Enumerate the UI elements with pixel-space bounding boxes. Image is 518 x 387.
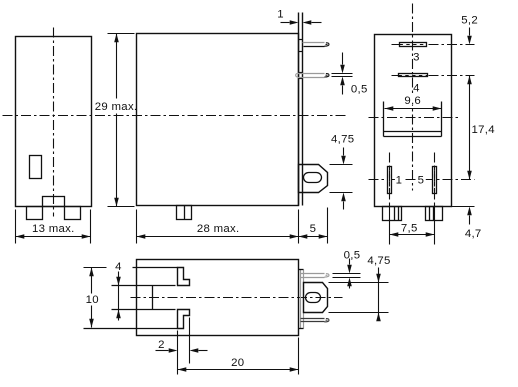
svg-text:1: 1 <box>396 175 403 187</box>
dim 0,5 v2 label <box>351 84 368 96</box>
svg-text:28 max.: 28 max. <box>197 223 240 235</box>
svg-text:17,4: 17,4 <box>472 124 495 136</box>
svg-text:5: 5 <box>418 175 425 187</box>
dim 29max extension lines <box>108 34 135 207</box>
terminal5 slot <box>433 167 437 194</box>
dim 17,4 label <box>472 124 495 136</box>
dim 20 extension line right <box>298 338 300 375</box>
svg-text:4,75: 4,75 <box>367 255 390 267</box>
dim 0,5 v2 line+arrows <box>340 53 345 95</box>
dim 20 line+arrows <box>178 367 299 372</box>
dim 13max extension lines <box>16 210 91 244</box>
dim 5 label <box>310 223 317 235</box>
view2 pin2 <box>296 74 329 78</box>
terminal3 label <box>413 51 420 63</box>
horizontal centerline views 1-2 <box>3 115 348 117</box>
view3 horizontal centerline <box>369 117 460 119</box>
view3 center slot bottom <box>384 132 442 137</box>
terminal1 label <box>395 174 404 187</box>
dim 10 line+arrows <box>89 268 94 328</box>
dim 28max extension lines <box>137 210 299 244</box>
dim 28max label <box>197 223 240 235</box>
view1 vertical centerline <box>53 28 55 217</box>
view1 window cutout <box>30 156 42 179</box>
dim 4,75 v2 label <box>331 133 354 145</box>
view3 right foot <box>426 207 443 221</box>
terminal5 centerline <box>434 153 436 205</box>
lower hook <box>178 310 190 329</box>
dim 13max label <box>32 223 75 235</box>
svg-text:1: 1 <box>277 8 284 20</box>
view2 latch hole <box>304 173 322 183</box>
dim 13max line+arrows <box>16 234 91 239</box>
slot lower edge line <box>112 309 176 311</box>
svg-text:5: 5 <box>310 223 317 235</box>
terminals row centerline <box>369 179 475 181</box>
dim 4 line+arrows <box>116 272 121 321</box>
view2 pin1 root block <box>299 40 303 52</box>
view1 left mounting leg <box>27 207 43 220</box>
view3 center slot sides <box>384 102 442 137</box>
dim 7,5 label <box>401 223 418 235</box>
dim 5 line+arrows <box>299 234 328 239</box>
view3 left foot <box>383 207 402 221</box>
slot end vertical <box>152 286 154 310</box>
dim 10 label <box>86 294 99 306</box>
terminal3 slot <box>400 43 427 47</box>
dim 5,2 label <box>461 14 478 26</box>
terminal5 label <box>416 174 425 187</box>
hook bottom reference line <box>84 328 178 330</box>
dim 0,5 btm label <box>344 250 361 262</box>
bottomview centerline <box>131 297 343 299</box>
svg-text:4: 4 <box>413 83 420 95</box>
dim 1 line+arrows <box>281 20 322 25</box>
view3 relay body outline <box>375 35 452 207</box>
svg-text:4,7: 4,7 <box>465 228 482 240</box>
bottomview top pin <box>301 274 330 278</box>
dim 4,7 line+arrow <box>467 207 472 225</box>
terminal1 centerline <box>389 153 391 205</box>
svg-text:10: 10 <box>86 294 99 306</box>
dim 5 extension line <box>327 208 329 244</box>
svg-text:0,5: 0,5 <box>344 250 361 262</box>
view3 bottom edge extension <box>452 206 475 208</box>
dim 28max line+arrows <box>137 234 299 239</box>
view3 vertical centerline <box>412 4 414 191</box>
dim 29max label <box>95 101 138 113</box>
view2 pin2 root block <box>299 73 303 79</box>
svg-text:20: 20 <box>231 357 244 369</box>
dim 2 label <box>158 339 165 351</box>
dim 0,5 btm extension lines <box>333 274 361 278</box>
dim 0,5 btm line+arrows <box>347 259 352 289</box>
dim 4,75 v2 extension lines <box>330 165 353 193</box>
terminal3 row centerline <box>392 44 475 46</box>
dim 9,6 line+arrows <box>385 106 442 111</box>
svg-text:4,75: 4,75 <box>331 133 354 145</box>
bottomview bottom pin <box>301 319 330 322</box>
svg-text:4: 4 <box>115 261 122 273</box>
view1 relay body outline <box>16 37 92 207</box>
dim 2 line+arrows <box>156 348 208 353</box>
upper hook <box>178 268 190 286</box>
view2 relay body outline <box>137 34 299 206</box>
view1 right mounting leg <box>65 207 81 220</box>
dim 29max line+arrows <box>114 34 119 207</box>
dim 7,5 line+arrows <box>390 232 435 237</box>
view1 bottom center tab <box>43 197 65 207</box>
view2 latch outline <box>299 165 328 193</box>
svg-text:5,2: 5,2 <box>461 14 478 26</box>
view2 pin1 <box>303 43 330 47</box>
dim 20 label <box>231 357 244 369</box>
view2 flange right line <box>302 13 304 206</box>
svg-text:29 max.: 29 max. <box>95 101 138 113</box>
svg-text:2: 2 <box>158 339 165 351</box>
dim 9,6 label <box>404 95 423 108</box>
dim 0,5 v2 extension lines <box>332 74 353 77</box>
terminal4 label <box>413 83 420 95</box>
dim 4,7 label <box>465 228 482 240</box>
dim 4,75 btm extension lines <box>329 283 389 313</box>
slot upper edge line <box>112 285 176 287</box>
dim 5,2 line+arrow <box>467 28 472 45</box>
dim 4,75 btm label <box>367 255 390 267</box>
svg-text:13 max.: 13 max. <box>32 223 75 235</box>
bottomview flange <box>299 270 304 329</box>
bottomview latch outline <box>304 283 328 313</box>
view2 bottom tab <box>177 206 192 220</box>
svg-text:3: 3 <box>413 51 420 63</box>
hook top reference line <box>84 267 178 269</box>
terminal4 slot <box>399 74 428 77</box>
terminal4 row centerline <box>392 75 475 77</box>
svg-text:9,6: 9,6 <box>404 95 421 107</box>
dim 1 label <box>277 8 284 20</box>
dim 4,75 v2 line+arrows <box>341 148 346 210</box>
svg-text:0,5: 0,5 <box>351 84 368 96</box>
bottomview latch hole <box>306 293 321 303</box>
terminal1 slot <box>388 167 392 194</box>
svg-text:7,5: 7,5 <box>401 223 418 235</box>
bottomview body outline <box>137 260 299 336</box>
dim 17,4 line+arrows <box>467 76 472 180</box>
dim 4,75 btm line+arrows <box>376 268 381 322</box>
dim 2 extension lines <box>178 318 190 375</box>
dim 7,5 extension lines <box>390 205 435 245</box>
view2 flange left line <box>298 13 300 206</box>
dim 4 label <box>115 261 122 273</box>
